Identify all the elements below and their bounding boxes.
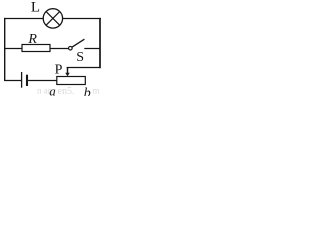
watermark bbox=[37, 86, 100, 98]
wire top left segment bbox=[4, 18, 44, 20]
wire switch right stub bbox=[84, 48, 100, 50]
switch S pivot bbox=[69, 46, 73, 50]
lamp L bbox=[43, 9, 62, 28]
label b bbox=[84, 86, 91, 101]
rheostat slider arrow bbox=[65, 67, 69, 76]
svg-text:P: P bbox=[55, 63, 63, 78]
rheostat body bbox=[57, 77, 86, 85]
label S bbox=[76, 50, 84, 65]
wire left vertical bbox=[4, 18, 6, 81]
resistor R bbox=[22, 45, 50, 52]
wire slider horizontal bbox=[67, 67, 101, 69]
switch S blade bbox=[72, 39, 85, 47]
battery positive plate bbox=[21, 72, 23, 88]
wire bottom left segment bbox=[4, 80, 21, 82]
wire battery to rheostat bbox=[28, 80, 57, 82]
label R bbox=[27, 32, 37, 47]
wire middle left segment bbox=[4, 48, 22, 50]
svg-text:S: S bbox=[76, 50, 84, 65]
label P bbox=[55, 63, 63, 78]
wire right vertical bbox=[99, 18, 101, 68]
svg-text:n an: n an bbox=[37, 86, 53, 96]
wire resistor to switch bbox=[50, 48, 68, 50]
label a bbox=[49, 83, 56, 98]
svg-text:en5.: en5. bbox=[58, 86, 75, 96]
label L bbox=[31, 0, 40, 16]
svg-text:b: b bbox=[84, 86, 91, 96]
svg-text:L: L bbox=[31, 0, 40, 16]
svg-text:R: R bbox=[27, 32, 37, 47]
svg-text:m: m bbox=[93, 86, 100, 96]
battery negative plate bbox=[26, 75, 28, 86]
wire top right segment bbox=[62, 18, 101, 20]
